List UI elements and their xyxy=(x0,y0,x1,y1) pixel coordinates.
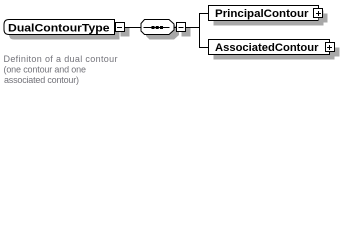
element PrincipalContour box xyxy=(209,6,319,21)
wire from sequence to branch xyxy=(186,27,200,29)
sequence dot 2 xyxy=(156,26,159,29)
minus sign xyxy=(179,27,184,29)
sequence dot 1 xyxy=(152,26,155,29)
branch vertical line xyxy=(199,13,201,48)
plus sign xyxy=(327,47,332,49)
svg-text:DualContourType: DualContourType xyxy=(8,23,110,35)
svg-text:Definiton of a dual contour: Definiton of a dual contour xyxy=(4,54,118,64)
sequence inner line xyxy=(144,27,170,29)
expand toggle of AssociatedContour shadow xyxy=(331,48,340,57)
expand toggle of PrincipalContour xyxy=(314,9,323,18)
collapse toggle of sequence xyxy=(177,23,186,32)
svg-text:(one contour and one: (one contour and one xyxy=(4,65,87,75)
wire from sequence to toggle xyxy=(174,27,177,29)
collapse toggle of DualContourType xyxy=(116,23,125,32)
minus sign xyxy=(117,27,122,29)
expand toggle of PrincipalContour shadow xyxy=(319,14,328,23)
svg-text:associated contour): associated contour) xyxy=(4,75,79,85)
element DualContourType shadow xyxy=(9,25,120,40)
element AssociatedContour box xyxy=(209,40,330,55)
expand toggle of AssociatedContour xyxy=(326,43,335,52)
collapse toggle of DualContourType shadow xyxy=(121,28,130,37)
element PrincipalContour shadow xyxy=(214,11,324,26)
svg-text:PrincipalContour: PrincipalContour xyxy=(215,8,309,20)
sequence compositor shadow xyxy=(146,25,179,40)
sequence compositor octagon xyxy=(141,20,174,35)
element DualContourType box xyxy=(4,20,115,35)
wire from DualContourType to sequence xyxy=(125,27,142,29)
sequence dot 3 xyxy=(160,26,163,29)
plus sign xyxy=(316,13,321,15)
wire to PrincipalContour xyxy=(200,13,209,15)
collapse toggle of sequence shadow xyxy=(182,28,191,37)
svg-text:AssociatedContour: AssociatedContour xyxy=(215,42,319,54)
element AssociatedContour shadow xyxy=(214,45,335,60)
wire to AssociatedContour xyxy=(200,47,209,49)
